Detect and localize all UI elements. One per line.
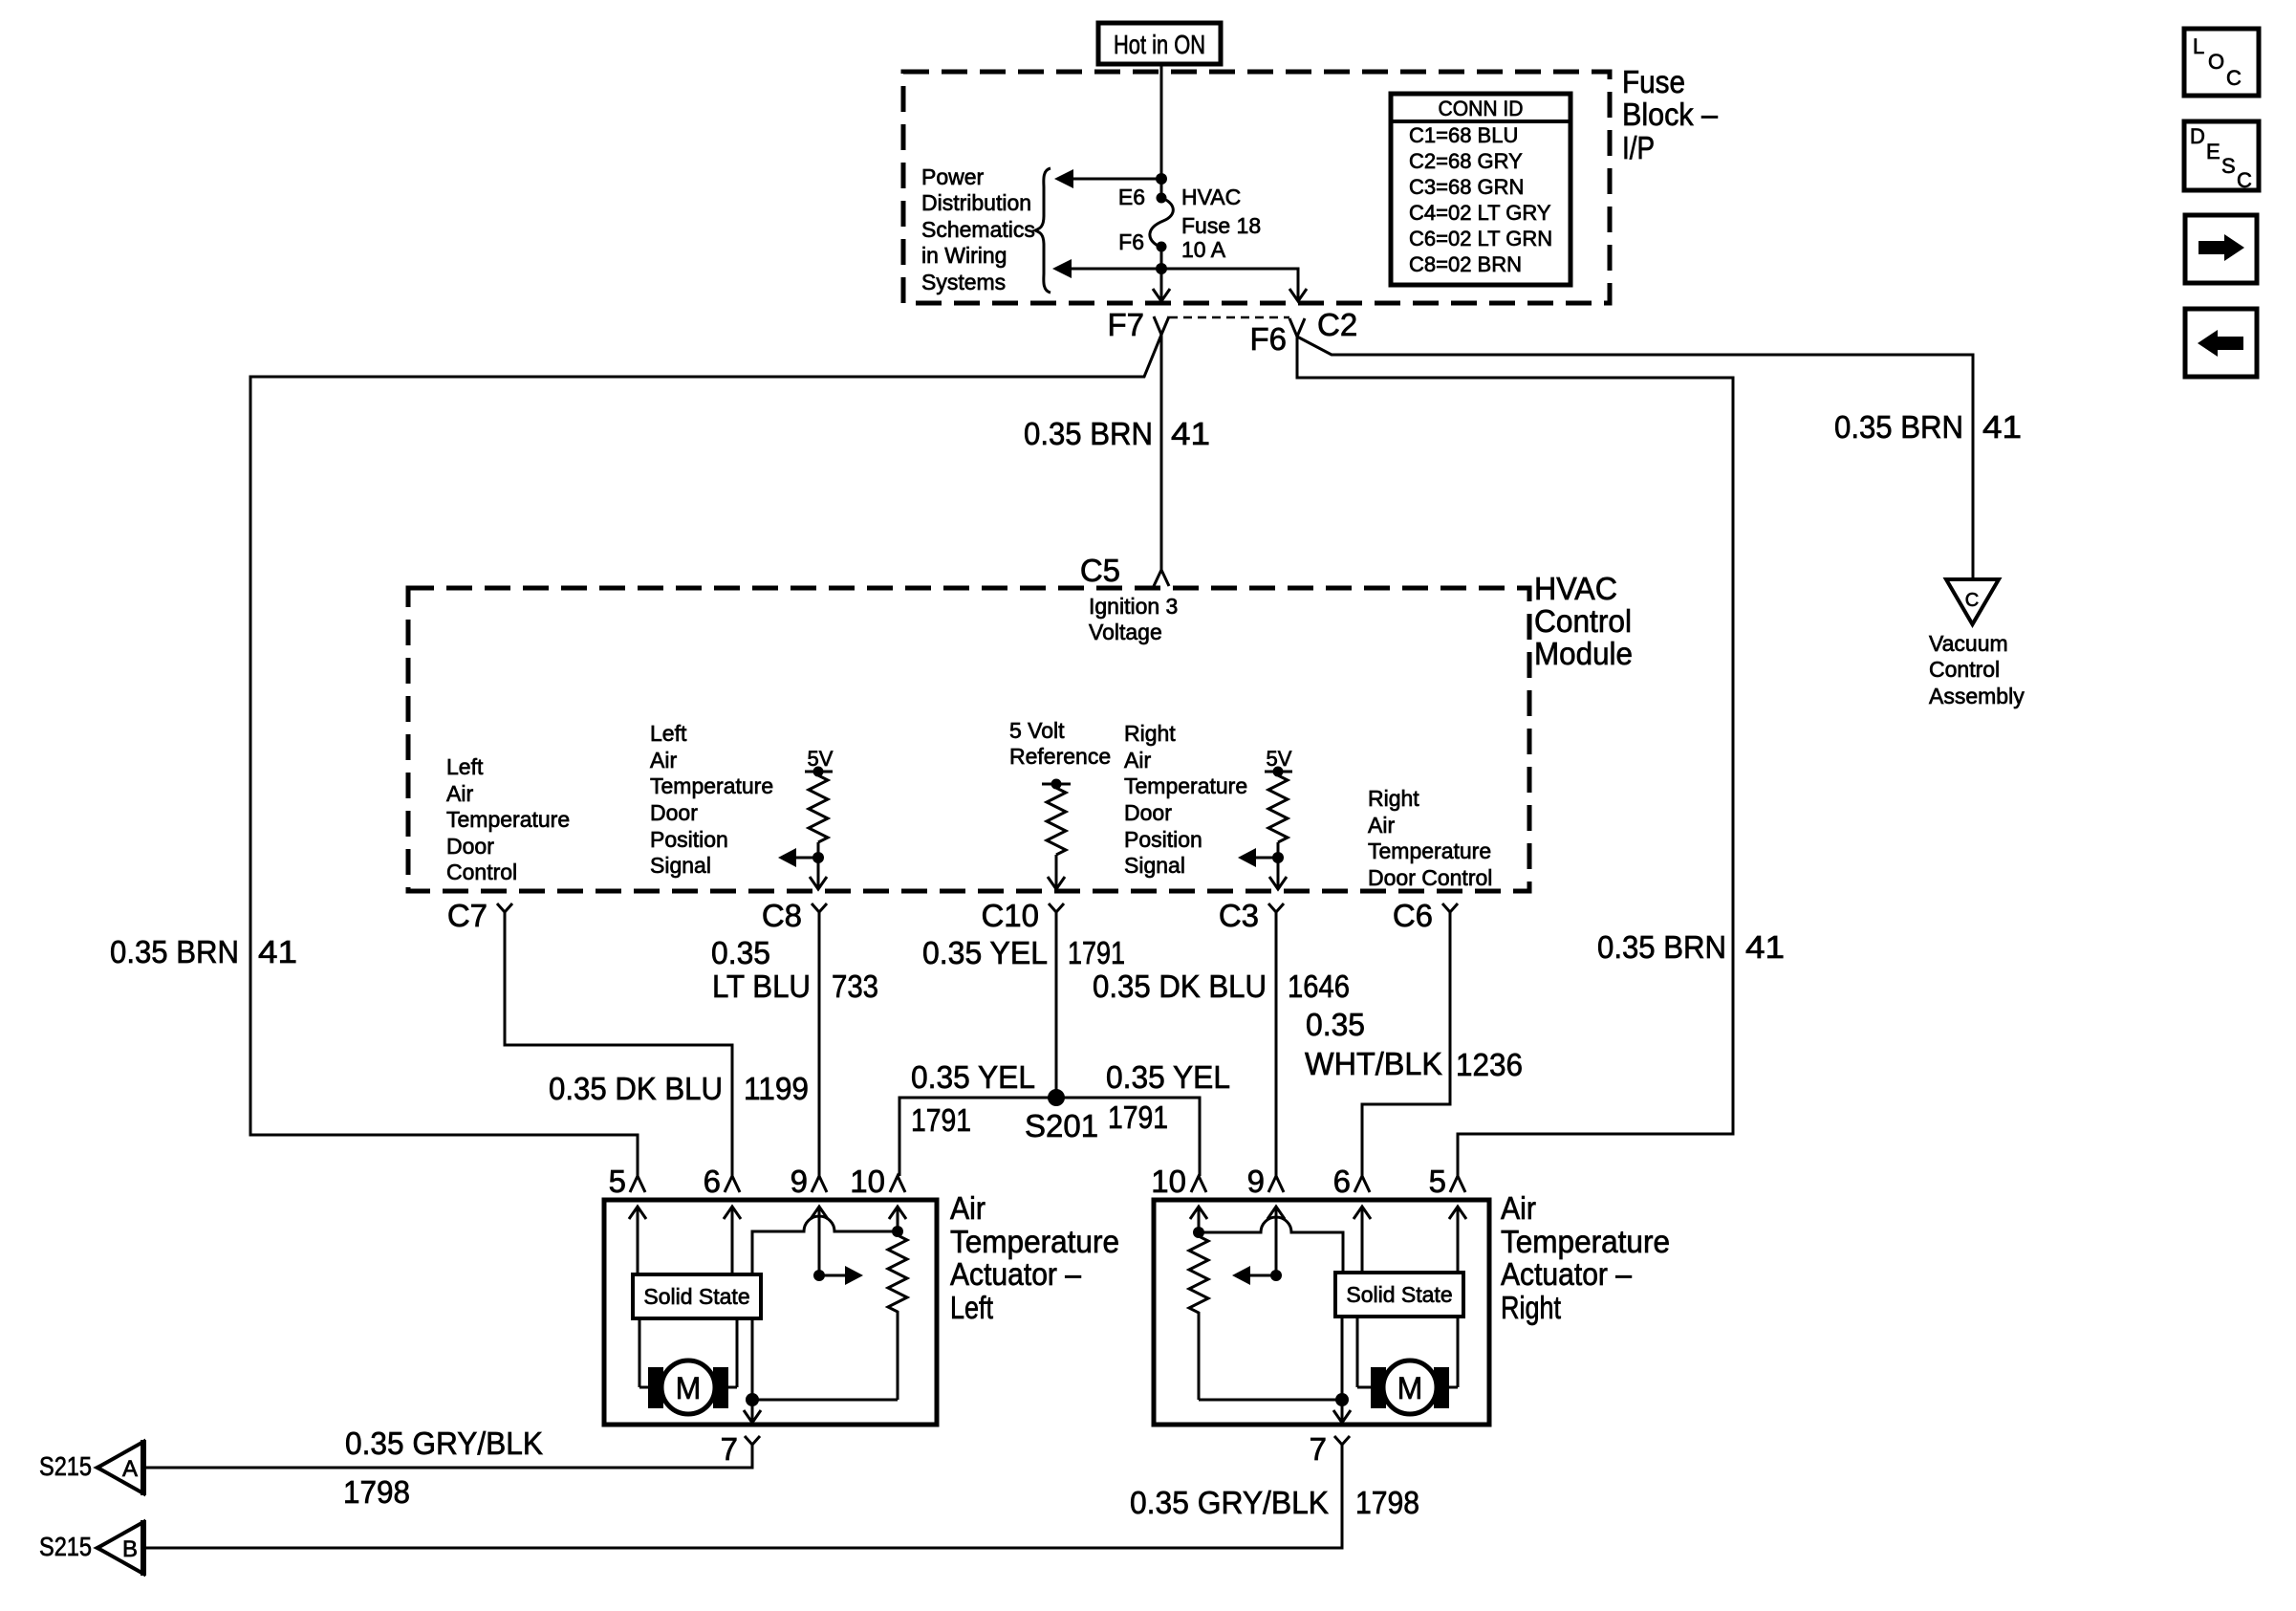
svg-text:10 A: 10 A xyxy=(1181,237,1226,262)
svg-text:I/P: I/P xyxy=(1622,130,1655,165)
motor M (right actuator) xyxy=(1357,1317,1458,1414)
wire: pin 10 internal (right) xyxy=(1198,1207,1201,1232)
label: Ignition 3 Voltage xyxy=(1089,594,1178,644)
wire: junction down arrow to pin 7 (left) xyxy=(751,1400,754,1422)
wire: S201 to left actuator pin 10 (0.35 YEL 1791) xyxy=(899,1098,1056,1176)
svg-text:1646: 1646 xyxy=(1288,969,1350,1004)
svg-text:C1=68 BLU: C1=68 BLU xyxy=(1409,123,1518,147)
svg-text:733: 733 xyxy=(832,969,878,1004)
svg-text:Fuse: Fuse xyxy=(1622,64,1685,99)
svg-text:LT BLU: LT BLU xyxy=(712,969,811,1004)
svg-text:C5: C5 xyxy=(1080,553,1120,588)
svg-text:C8: C8 xyxy=(762,898,802,933)
node: fuse output junction xyxy=(1156,263,1167,274)
pin 9 (right actuator) xyxy=(1247,1164,1284,1199)
svg-text:WHT/BLK: WHT/BLK xyxy=(1305,1046,1442,1081)
svg-text:S215: S215 xyxy=(39,1451,92,1481)
pin 10 (right actuator) xyxy=(1151,1164,1206,1199)
svg-text:A: A xyxy=(122,1456,138,1482)
node: 5V reference tick xyxy=(1042,783,1071,786)
svg-text:0.35 YEL: 0.35 YEL xyxy=(1106,1059,1230,1095)
svg-text:Temperature: Temperature xyxy=(446,807,570,832)
svg-text:Temperature: Temperature xyxy=(1124,773,1247,798)
svg-text:C: C xyxy=(1965,590,1979,611)
svg-text:Signal: Signal xyxy=(1124,853,1185,878)
svg-text:7: 7 xyxy=(721,1431,738,1467)
pin 6 (right actuator) xyxy=(1333,1164,1370,1199)
node: motor return junction (left) xyxy=(746,1393,759,1406)
connector F6 / C2 xyxy=(1249,307,1357,357)
Air Temperature Actuator - Right box xyxy=(1154,1200,1489,1425)
potentiometer wiper (left actuator) xyxy=(813,1270,825,1281)
svg-text:C4=02 LT GRY: C4=02 LT GRY xyxy=(1409,201,1551,225)
svg-text:Systems: Systems xyxy=(921,270,1006,294)
svg-text:Door: Door xyxy=(650,800,698,825)
svg-text:0.35 BRN: 0.35 BRN xyxy=(1597,929,1726,965)
svg-text:1798: 1798 xyxy=(1355,1485,1419,1520)
svg-text:Temperature: Temperature xyxy=(650,773,773,798)
wire: C6 to right actuator pin 6 (0.35 WHT/BLK 1236) xyxy=(1362,912,1450,1176)
svg-text:41: 41 xyxy=(258,934,297,969)
fuse 18 terminal E6 xyxy=(1157,193,1167,204)
svg-text:Signal: Signal xyxy=(650,853,711,878)
connector C3 xyxy=(1219,898,1284,933)
wire: F7 down to C5 (0.35 BRN 41) xyxy=(1160,335,1163,570)
legend box LOC xyxy=(2184,29,2259,96)
svg-text:C2: C2 xyxy=(1317,307,1357,342)
svg-text:Air: Air xyxy=(650,748,677,773)
resistor: 5V reference xyxy=(1047,788,1066,855)
wire: left pin 7 to splice S215-A (0.35 GRY/BLK 1798) xyxy=(143,1445,752,1468)
wire: pin 5 internal to solid state (right) xyxy=(1457,1207,1460,1273)
wire: C10 down to splice S201 (0.35 YEL 1791) xyxy=(1055,912,1058,1098)
fuse 18 terminal F6 xyxy=(1157,242,1167,252)
wire: arrow to power distribution (upper) xyxy=(1072,178,1161,181)
svg-text:C10: C10 xyxy=(981,898,1039,933)
svg-text:0.35 DK BLU: 0.35 DK BLU xyxy=(549,1071,723,1106)
potentiometer wiper (right actuator) xyxy=(1270,1270,1282,1281)
wire: right signal arrow xyxy=(1244,857,1278,860)
svg-text:C6=02 LT GRN: C6=02 LT GRN xyxy=(1409,227,1552,250)
wire: C7 to left actuator pin 6 (0.35 DK BLU 1199) xyxy=(505,912,732,1176)
resistor: potentiometer element (right) xyxy=(1189,1232,1208,1400)
svg-text:Left: Left xyxy=(950,1290,993,1325)
wire: arrow to power distribution (lower) xyxy=(1070,268,1161,271)
svg-text:Vacuum: Vacuum xyxy=(1929,631,2008,656)
svg-text:6: 6 xyxy=(1333,1164,1351,1199)
svg-text:Temperature: Temperature xyxy=(1501,1224,1670,1259)
wire: left signal arrow xyxy=(784,857,818,860)
wire: pin 6 internal to solid state (right) xyxy=(1361,1207,1364,1273)
splice S215 B xyxy=(39,1520,143,1576)
node: motor return junction (right) xyxy=(1335,1393,1349,1406)
svg-text:Reference: Reference xyxy=(1009,744,1111,769)
resistor: left 5V pull-up xyxy=(809,775,828,842)
svg-text:Module: Module xyxy=(1534,636,1633,671)
wire: pot top with hop over wiper wire (right) xyxy=(1199,1217,1343,1273)
wire: C3 to right actuator pin 9 (0.35 DK BLU 1646) xyxy=(1275,912,1278,1176)
svg-text:Solid State: Solid State xyxy=(1346,1282,1452,1307)
label: 5 Volt Reference xyxy=(1009,718,1111,769)
svg-text:Door: Door xyxy=(1124,800,1172,825)
svg-text:F7: F7 xyxy=(1107,307,1144,342)
svg-text:Control: Control xyxy=(1929,657,2000,682)
svg-text:O: O xyxy=(2208,50,2224,74)
svg-text:5: 5 xyxy=(609,1164,626,1199)
svg-text:Control: Control xyxy=(446,860,517,884)
brace for power distribution xyxy=(1035,168,1051,293)
svg-text:1236: 1236 xyxy=(1456,1047,1523,1082)
node: pot top junction (right) xyxy=(1193,1227,1204,1238)
CONN ID table xyxy=(1391,94,1570,285)
wire: dashed connector link F7-F6 xyxy=(1169,316,1289,319)
wire: pin 10 internal xyxy=(897,1207,899,1231)
svg-text:Air: Air xyxy=(1124,748,1151,773)
node: 5V right tick xyxy=(1265,771,1292,773)
legend box DESC xyxy=(2184,121,2259,192)
svg-text:Right: Right xyxy=(1124,721,1176,746)
svg-text:0.35 GRY/BLK: 0.35 GRY/BLK xyxy=(1130,1485,1329,1520)
node: right signal junction xyxy=(1272,852,1284,863)
svg-text:Temperature: Temperature xyxy=(1368,838,1491,863)
wire: junction down to F7 xyxy=(1160,269,1163,300)
wire: C2 branch to right side xyxy=(1297,337,1733,1176)
node: feed junction xyxy=(1156,173,1167,185)
svg-text:41: 41 xyxy=(1745,929,1785,965)
svg-text:F6: F6 xyxy=(1118,229,1144,254)
svg-text:Position: Position xyxy=(1124,827,1202,852)
svg-text:C6: C6 xyxy=(1393,898,1433,933)
svg-text:0.35: 0.35 xyxy=(1306,1007,1365,1042)
svg-text:D: D xyxy=(2190,124,2205,148)
svg-text:0.35 YEL: 0.35 YEL xyxy=(911,1059,1035,1095)
connector C7 xyxy=(447,898,512,933)
svg-text:Air: Air xyxy=(446,781,473,806)
label: Air Temperature Actuator - Right xyxy=(1501,1190,1670,1325)
svg-text:0.35 DK BLU: 0.35 DK BLU xyxy=(1093,969,1267,1004)
splice symbol C: Vacuum Control Assembly xyxy=(1946,579,1999,624)
svg-text:0.35 GRY/BLK: 0.35 GRY/BLK xyxy=(345,1426,543,1461)
svg-text:Assembly: Assembly xyxy=(1929,684,2025,708)
Solid State box (right) xyxy=(1335,1273,1463,1317)
label: Air Temperature Actuator - Left xyxy=(950,1190,1119,1325)
fuse F18 element xyxy=(1150,198,1173,247)
wire: pin 9 internal wiper xyxy=(818,1207,821,1275)
svg-text:1791: 1791 xyxy=(911,1102,971,1138)
label: HVAC Fuse 18 10 A xyxy=(1181,185,1261,262)
connector C8 xyxy=(762,898,827,933)
svg-text:C: C xyxy=(2237,168,2252,192)
legend box arrow right xyxy=(2185,215,2257,283)
svg-text:Power: Power xyxy=(921,164,985,189)
svg-text:1199: 1199 xyxy=(744,1071,809,1106)
wire: S201 to right actuator pin 10 (0.35 YEL 1791) xyxy=(1056,1098,1200,1176)
svg-text:E6: E6 xyxy=(1118,185,1145,209)
wire: reference down arrow to C10 xyxy=(1055,855,1058,888)
pin 7 (left actuator) xyxy=(721,1431,760,1467)
svg-text:C7: C7 xyxy=(447,898,487,933)
svg-text:CONN ID: CONN ID xyxy=(1439,97,1524,120)
svg-text:Ignition 3: Ignition 3 xyxy=(1089,594,1178,619)
svg-text:Hot in ON: Hot in ON xyxy=(1114,30,1205,59)
label: Right Air Temperature Door Position Signal xyxy=(1124,721,1247,878)
svg-text:Block –: Block – xyxy=(1622,97,1719,132)
svg-text:10: 10 xyxy=(1151,1164,1186,1199)
svg-text:Actuator –: Actuator – xyxy=(1501,1256,1633,1292)
svg-text:0.35 BRN: 0.35 BRN xyxy=(110,934,239,969)
svg-text:C8=02 BRN: C8=02 BRN xyxy=(1409,252,1522,276)
connector C10 xyxy=(981,898,1064,933)
svg-text:Air: Air xyxy=(1501,1190,1536,1226)
svg-text:5 Volt: 5 Volt xyxy=(1009,718,1065,743)
svg-text:C3=68 GRN: C3=68 GRN xyxy=(1409,175,1524,199)
svg-text:9: 9 xyxy=(1247,1164,1265,1199)
Air Temperature Actuator - Left box xyxy=(604,1200,937,1425)
pin 7 (right actuator) xyxy=(1310,1431,1350,1467)
wire: right signal down arrow to C3 xyxy=(1277,858,1280,888)
label: Vacuum Control Assembly xyxy=(1929,631,2025,708)
svg-text:M: M xyxy=(676,1371,702,1405)
connector F7 xyxy=(1107,307,1169,342)
pin 5 (left actuator) xyxy=(609,1164,645,1199)
svg-text:0.35 BRN: 0.35 BRN xyxy=(1834,409,1963,445)
svg-text:F6: F6 xyxy=(1249,321,1287,357)
wire: right pin 7 to splice S215-B (0.35 GRY/BLK 1798) xyxy=(143,1445,1342,1548)
legend box arrow left xyxy=(2185,309,2257,377)
connector C6 xyxy=(1393,898,1458,933)
svg-text:41: 41 xyxy=(1171,416,1210,451)
svg-text:Control: Control xyxy=(1534,603,1632,639)
svg-text:S: S xyxy=(2221,154,2236,178)
svg-text:Door Control: Door Control xyxy=(1368,865,1492,890)
HVAC control module dashed box xyxy=(408,588,1529,891)
node: 5V left tick xyxy=(805,771,833,773)
Solid State box (left) xyxy=(633,1274,761,1318)
Hot in ON box xyxy=(1098,23,1221,64)
wire: pin 6 internal to solid state xyxy=(731,1207,734,1274)
pin 6 (left actuator) xyxy=(704,1164,740,1199)
svg-text:Door: Door xyxy=(446,834,494,859)
svg-text:E: E xyxy=(2206,140,2220,163)
svg-text:5: 5 xyxy=(1429,1164,1446,1199)
wire: junction down arrow to pin 7 (right) xyxy=(1341,1400,1344,1422)
svg-text:41: 41 xyxy=(1982,409,2022,445)
node: left signal junction xyxy=(812,852,824,863)
svg-text:10: 10 xyxy=(850,1164,885,1199)
svg-text:Fuse 18: Fuse 18 xyxy=(1181,213,1261,238)
wire: left signal down arrow to C8 xyxy=(817,858,820,888)
svg-text:9: 9 xyxy=(791,1164,808,1199)
wire: C8 to left actuator pin 9 (0.35 LT BLU 733) xyxy=(818,912,821,1176)
svg-text:Right: Right xyxy=(1501,1290,1561,1325)
svg-text:M: M xyxy=(1397,1371,1423,1405)
svg-text:7: 7 xyxy=(1310,1431,1327,1467)
connector C5 xyxy=(1080,553,1169,588)
label: Left Air Temperature Door Control xyxy=(446,754,570,884)
svg-text:Voltage: Voltage xyxy=(1089,620,1162,644)
svg-text:HVAC: HVAC xyxy=(1534,571,1617,606)
svg-text:1791: 1791 xyxy=(1108,1099,1168,1135)
label: Right Air Temperature Door Control xyxy=(1368,786,1492,890)
wire: pot top with hop over wiper wire xyxy=(752,1216,898,1274)
wire: solid state pass-through to motor junction xyxy=(751,1318,754,1400)
svg-text:in Wiring: in Wiring xyxy=(921,243,1007,268)
wire: solid state pass-through to motor junction (right) xyxy=(1341,1317,1344,1400)
svg-text:L: L xyxy=(2193,34,2204,58)
resistor: right 5V pull-up xyxy=(1268,775,1288,842)
label: Left Air Temperature Door Position Signal xyxy=(650,721,773,878)
svg-text:Actuator –: Actuator – xyxy=(950,1256,1082,1292)
wire: pin 9 internal wiper (right) xyxy=(1275,1207,1278,1275)
svg-text:Position: Position xyxy=(650,827,728,852)
svg-text:S201: S201 xyxy=(1025,1108,1098,1143)
svg-text:Right: Right xyxy=(1368,786,1419,811)
splice S201 xyxy=(1048,1089,1065,1106)
wire: C2 branch to vacuum control xyxy=(1297,337,1973,579)
label: Fuse Block - I/P xyxy=(1622,64,1719,165)
wire: pin 5 internal to solid state xyxy=(637,1207,639,1274)
splice S215 A xyxy=(39,1440,143,1495)
svg-text:Left: Left xyxy=(446,754,484,779)
wire: fuse output xyxy=(1160,247,1163,269)
fuse block dashed box xyxy=(903,72,1610,303)
wire: ignition feed from Hot in ON xyxy=(1160,62,1163,198)
svg-text:1791: 1791 xyxy=(1068,935,1125,970)
svg-text:C2=68 GRY: C2=68 GRY xyxy=(1409,149,1523,173)
label: Power Distribution Schematics in Wiring Systems xyxy=(921,164,1035,294)
svg-text:Temperature: Temperature xyxy=(950,1224,1119,1259)
wire: branch right to F6 xyxy=(1161,269,1298,300)
resistor: potentiometer element (left) xyxy=(888,1231,907,1400)
node: pot top junction (left) xyxy=(892,1226,903,1237)
svg-text:6: 6 xyxy=(704,1164,721,1199)
svg-text:0.35 BRN: 0.35 BRN xyxy=(1024,416,1153,451)
wire: F7 branch to left side xyxy=(250,335,1161,1176)
pin 9 (left actuator) xyxy=(791,1164,827,1199)
svg-text:0.35 YEL: 0.35 YEL xyxy=(922,935,1048,970)
svg-text:HVAC: HVAC xyxy=(1181,185,1241,209)
pin 10 (left actuator) xyxy=(850,1164,905,1199)
motor M (left actuator) xyxy=(639,1318,737,1414)
wire: pot bottom to junction (left) xyxy=(752,1399,898,1402)
svg-text:Solid State: Solid State xyxy=(643,1284,749,1309)
label: HVAC Control Module xyxy=(1534,571,1633,671)
svg-text:C: C xyxy=(2226,66,2242,90)
label: 0.35 BRN 41 (left) xyxy=(110,934,297,969)
svg-text:Distribution: Distribution xyxy=(921,190,1031,215)
label: 0.35 BRN 41 (right) xyxy=(1597,929,1785,965)
wire: pot bottom to junction (right) xyxy=(1199,1399,1342,1402)
pin 5 (right actuator) xyxy=(1429,1164,1465,1199)
svg-text:S215: S215 xyxy=(39,1532,92,1561)
label: 0.35 BRN 41 (center) xyxy=(1024,416,1210,451)
svg-text:Air: Air xyxy=(950,1190,986,1226)
svg-text:Air: Air xyxy=(1368,813,1395,838)
svg-text:Left: Left xyxy=(650,721,687,746)
svg-text:Schematics: Schematics xyxy=(921,217,1035,242)
svg-text:0.35: 0.35 xyxy=(711,935,770,970)
svg-text:1798: 1798 xyxy=(343,1474,410,1510)
label: 0.35 BRN 41 (vacuum) xyxy=(1834,409,2022,445)
svg-text:C3: C3 xyxy=(1219,898,1259,933)
svg-text:B: B xyxy=(122,1536,138,1562)
